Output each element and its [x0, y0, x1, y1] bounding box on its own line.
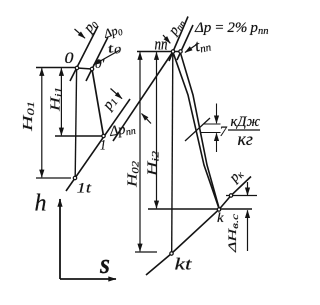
node point pp'	[179, 50, 182, 53]
svg-text:пп: пп	[155, 35, 168, 54]
node h axis	[59, 199, 61, 279]
svg-text:p1: p1	[99, 94, 121, 115]
svg-text:Δp = 2% pпп: Δp = 2% pпп	[194, 20, 268, 37]
node p_pp pointer arrow	[163, 35, 170, 43]
wire horizontal reference line at 0-level	[36, 67, 78, 69]
node point pp	[171, 50, 174, 53]
svg-text:7: 7	[220, 124, 228, 140]
node point on pk above k	[229, 194, 232, 197]
node isobar p_pp steep segment above pp	[169, 17, 188, 62]
svg-text:1t: 1t	[77, 181, 93, 197]
wire horizontal reference line at 1-level	[55, 135, 103, 137]
node isobar p_pp long line from near 1 up to pp	[113, 52, 173, 142]
svg-text:pпп: pпп	[165, 15, 189, 39]
svg-text:h: h	[35, 191, 47, 217]
node isobar p0-delta line through 0'	[86, 37, 108, 81]
svg-text:H02: H02	[126, 161, 142, 189]
node Hi1 dimension line	[60, 68, 62, 135]
node isobar p0 line through 0	[70, 26, 98, 81]
svg-text:кДж: кДж	[231, 114, 261, 130]
svg-text:Hi2: Hi2	[146, 151, 162, 178]
node t_pp isotherm arrow toward pp'	[185, 44, 198, 53]
wire horizontal reference line at k-level	[148, 208, 252, 210]
node point k	[217, 208, 220, 211]
svg-text:p0: p0	[81, 17, 102, 37]
svg-text:H01: H01	[21, 101, 37, 133]
node isobar after 2% throttle through pp'	[177, 25, 193, 60]
wire horizontal reference line at pp-level	[137, 51, 181, 53]
node point 0	[75, 66, 78, 69]
node point 1	[102, 134, 105, 137]
wire isentrope 0 to 1t (vertical)	[75, 70, 76, 176]
node point 1t	[73, 176, 76, 179]
wire horizontal line at upper pk circle level	[226, 195, 257, 197]
svg-text:s: s	[99, 249, 110, 280]
node dH_vs dimension line	[247, 182, 249, 251]
svg-text:Δpпп: Δpпп	[107, 120, 136, 141]
svg-text:Δp0: Δp0	[101, 22, 124, 42]
node t0 isotherm arrow toward 0'	[94, 51, 120, 65]
node H01 dimension line	[36, 68, 71, 178]
node isobar p_k polyline through kt k and beyond	[146, 177, 251, 276]
node s axis	[60, 278, 116, 280]
node 7 kJ/kg dimension ticks	[201, 104, 221, 153]
svg-text:1: 1	[100, 138, 106, 154]
wire isentrope pp to kt (vertical)	[172, 54, 173, 252]
node point 0'	[90, 67, 93, 70]
svg-text:0': 0'	[95, 56, 105, 71]
svg-text:kt: kt	[175, 255, 194, 274]
node isobar fragment crossing expansion lines near 7	[185, 118, 210, 141]
svg-text:кг: кг	[238, 129, 253, 149]
node dp_pp gap arrow upper	[111, 89, 123, 99]
node p0 pointer arrow	[75, 29, 86, 38]
wire throttling 0 to 0'	[77, 68, 92, 69]
svg-text:Hi1: Hi1	[49, 87, 65, 112]
node H02 dimension line	[135, 52, 157, 252]
node point kt	[170, 252, 173, 255]
svg-text:t0: t0	[106, 38, 123, 57]
svg-text:ΔHв.с: ΔHв.с	[225, 214, 240, 253]
node dp_pp gap arrow lower	[142, 114, 152, 124]
svg-text:tпп: tпп	[193, 33, 213, 56]
wire expansion pp' to k	[181, 54, 220, 209]
wire expansion pp to k	[174, 54, 220, 209]
node Hi2 dimension line	[156, 52, 158, 208]
svg-text:k: k	[217, 211, 224, 226]
svg-text:0: 0	[65, 50, 74, 67]
node isobar p1 line through 1t and 1	[66, 99, 130, 191]
wire expansion line 0' to 1	[92, 69, 104, 136]
